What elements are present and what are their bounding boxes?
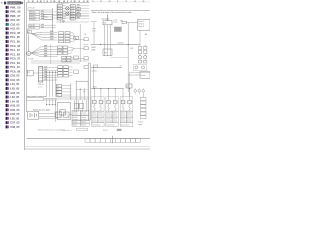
svg-text:to MCC: to MCC bbox=[92, 70, 99, 73]
svg-text:C04_05: C04_05 bbox=[10, 78, 20, 82]
svg-text:Switch: Switch bbox=[81, 124, 86, 127]
svg-text:S1: S1 bbox=[57, 95, 59, 97]
svg-text:PWL_05: PWL_05 bbox=[10, 5, 21, 9]
svg-text:TR1: TR1 bbox=[104, 53, 107, 55]
svg-text:C07_05: C07_05 bbox=[10, 121, 20, 125]
svg-text:(panel): (panel) bbox=[113, 115, 118, 117]
svg-text:L1 T1: L1 T1 bbox=[64, 3, 69, 5]
svg-text:PL: PL bbox=[28, 72, 30, 74]
svg-text:x: x bbox=[84, 44, 85, 46]
svg-text:(panel): (panel) bbox=[121, 115, 126, 117]
svg-text:aa bb: aa bb bbox=[113, 19, 117, 21]
svg-text:F: F bbox=[96, 102, 97, 104]
svg-text:A03_05: A03_05 bbox=[10, 104, 20, 108]
svg-text:A02_05: A02_05 bbox=[10, 91, 20, 95]
svg-text:PCL_10: PCL_10 bbox=[10, 65, 20, 69]
svg-text:PCA_07: PCA_07 bbox=[10, 57, 20, 61]
svg-text:PW A1: PW A1 bbox=[30, 18, 36, 21]
svg-text:L03_05: L03_05 bbox=[10, 95, 19, 99]
svg-text:(panel): (panel) bbox=[127, 115, 132, 117]
svg-text:PCL_08: PCL_08 bbox=[10, 52, 20, 56]
svg-text:(panel): (panel) bbox=[98, 121, 103, 123]
svg-text:C05_05: C05_05 bbox=[10, 108, 20, 112]
svg-text:3A: 3A bbox=[84, 33, 87, 36]
svg-text:Panel: Panel bbox=[141, 75, 146, 77]
svg-text:FL: FL bbox=[60, 112, 62, 114]
svg-text:C08_05: C08_05 bbox=[10, 125, 20, 129]
svg-text:PCL_07: PCL_07 bbox=[10, 48, 20, 52]
svg-text:Term bk: Term bk bbox=[138, 121, 144, 124]
svg-text:(panel): (panel) bbox=[92, 121, 97, 123]
svg-text:(panel): (panel) bbox=[121, 121, 126, 123]
svg-text:(panel): (panel) bbox=[113, 121, 118, 123]
svg-text:Overhead: Overhead bbox=[101, 19, 109, 21]
svg-text:PLC1: PLC1 bbox=[103, 130, 108, 132]
svg-text:line: line bbox=[104, 23, 107, 25]
svg-text:Switch: Switch bbox=[121, 118, 126, 121]
svg-text:Switch: Switch bbox=[121, 112, 126, 115]
svg-text:F: F bbox=[125, 102, 126, 104]
svg-text:PCL_06: PCL_06 bbox=[10, 40, 20, 44]
svg-text:(panel): (panel) bbox=[106, 121, 111, 123]
svg-text:PW B2: PW B2 bbox=[29, 28, 35, 30]
svg-text:L04_05: L04_05 bbox=[10, 99, 19, 103]
svg-text:PCA_05: PCA_05 bbox=[10, 31, 20, 35]
svg-text:PCA_06: PCA_06 bbox=[10, 44, 20, 48]
svg-text:C03_05: C03_05 bbox=[10, 74, 20, 78]
svg-text:supply: supply bbox=[138, 124, 143, 126]
svg-text:3A: 3A bbox=[145, 33, 148, 36]
svg-text:K1M: K1M bbox=[130, 48, 134, 50]
svg-text:PWL_06: PWL_06 bbox=[10, 10, 21, 14]
svg-text:F: F bbox=[117, 102, 118, 104]
svg-text:Control feed: Control feed bbox=[121, 123, 129, 126]
svg-text:QF: QF bbox=[126, 86, 129, 88]
svg-text:Note: the strip wide of the tr: Note: the strip wide of the transmission… bbox=[92, 11, 133, 14]
svg-text:PCA_08: PCA_08 bbox=[10, 69, 20, 73]
svg-text:Switch: Switch bbox=[127, 112, 132, 115]
svg-text:(panel): (panel) bbox=[127, 121, 132, 123]
svg-text:L02_05: L02_05 bbox=[10, 86, 19, 90]
svg-text:3~ kW: 3~ kW bbox=[28, 58, 33, 60]
svg-text:PCL_05: PCL_05 bbox=[10, 35, 20, 39]
svg-text:C02_05: C02_05 bbox=[10, 22, 20, 26]
svg-text:F: F bbox=[132, 102, 133, 104]
svg-text:Switch: Switch bbox=[127, 118, 132, 121]
svg-text:F: F bbox=[111, 102, 112, 104]
svg-text:PWL_07: PWL_07 bbox=[10, 14, 21, 18]
svg-text:Switch panel supply: Switch panel supply bbox=[33, 108, 50, 111]
svg-text:Switch: Switch bbox=[72, 124, 77, 127]
svg-text:F: F bbox=[103, 102, 104, 104]
svg-text:L05_05: L05_05 bbox=[10, 116, 19, 120]
svg-text:MCC: MCC bbox=[93, 87, 98, 89]
svg-text:Switch: Switch bbox=[98, 118, 103, 121]
svg-text:C06_05: C06_05 bbox=[10, 112, 20, 116]
svg-text:22: 22 bbox=[120, 66, 122, 68]
svg-text:PCL_09: PCL_09 bbox=[10, 61, 20, 65]
svg-text:(Local): (Local) bbox=[73, 114, 79, 116]
svg-text:M: M bbox=[28, 53, 30, 55]
svg-text:Control feed: Control feed bbox=[106, 123, 114, 126]
svg-text:Switch: Switch bbox=[113, 112, 118, 115]
svg-text:Switch: Switch bbox=[98, 112, 103, 115]
svg-text:50Hz: 50Hz bbox=[91, 49, 95, 51]
svg-text:cc dd: cc dd bbox=[113, 22, 117, 24]
svg-text:bI xx: bI xx bbox=[92, 31, 96, 33]
svg-text:(Local): (Local) bbox=[81, 114, 87, 116]
svg-text:(panel): (panel) bbox=[92, 115, 97, 117]
svg-text:* Underline to: * Underline to bbox=[60, 129, 71, 132]
svg-text:Switch: Switch bbox=[106, 118, 111, 121]
svg-text:S1: S1 bbox=[57, 92, 59, 94]
svg-text:C01_05: C01_05 bbox=[10, 18, 20, 22]
svg-text:M1: M1 bbox=[28, 32, 31, 34]
svg-text:S1: S1 bbox=[57, 89, 59, 91]
svg-text:S1: S1 bbox=[57, 86, 59, 88]
svg-text:(panel): (panel) bbox=[98, 115, 103, 117]
svg-text:Switch: Switch bbox=[106, 112, 111, 115]
svg-text:Term 3: Term 3 bbox=[138, 26, 144, 28]
svg-text:Pwr: Pwr bbox=[44, 15, 48, 18]
svg-text:4x2.5: 4x2.5 bbox=[38, 86, 42, 88]
svg-text:Switch: Switch bbox=[113, 118, 118, 121]
svg-text:Switch: Switch bbox=[92, 118, 97, 121]
svg-text:Switch: Switch bbox=[92, 112, 97, 115]
svg-text:Control feed: Control feed bbox=[92, 123, 100, 126]
svg-text:T1 a: T1 a bbox=[71, 19, 74, 21]
svg-text:3x400V: 3x400V bbox=[118, 43, 125, 45]
svg-text:L01_05: L01_05 bbox=[10, 82, 19, 86]
svg-text:A01_05: A01_05 bbox=[10, 27, 20, 31]
svg-text:=PW+A1: =PW+A1 bbox=[27, 7, 36, 10]
svg-text:(panel): (panel) bbox=[106, 115, 111, 117]
